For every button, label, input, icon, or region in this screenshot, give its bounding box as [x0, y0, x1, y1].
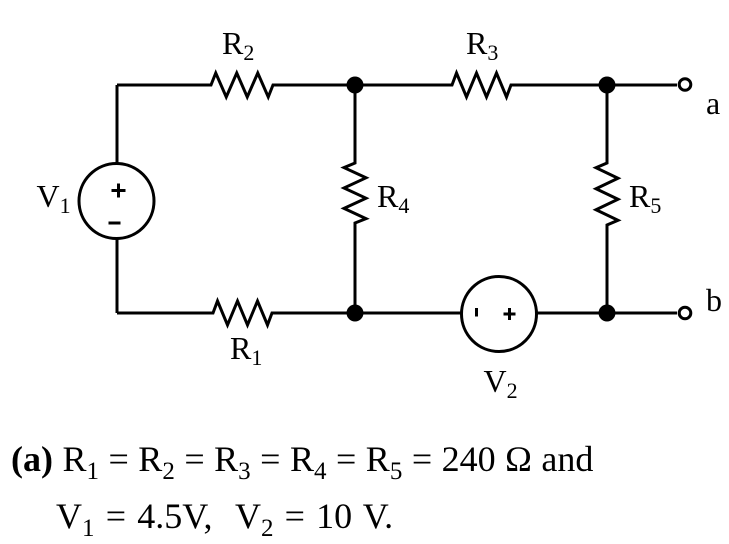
svg-text:a: a [706, 85, 720, 121]
svg-text:b: b [706, 282, 722, 318]
svg-text:V1 = 4.5V, V2 = 10 V.: V1 = 4.5V, V2 = 10 V. [56, 496, 393, 542]
svg-text:(a) R1 = R2 = R3 = R4 = R5 = 2: (a) R1 = R2 = R3 = R4 = R5 = 240 Ω and [11, 439, 593, 485]
